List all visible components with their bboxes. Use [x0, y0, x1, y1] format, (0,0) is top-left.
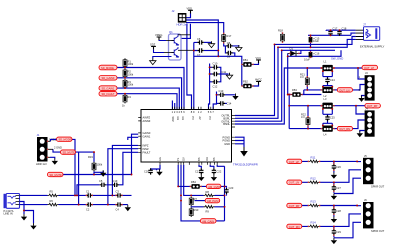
- svg-text:C3: C3: [116, 189, 120, 193]
- svg-text:C10: C10: [213, 62, 218, 66]
- wire U1 GAIN1 stub: [128, 137, 138, 140]
- resistor R8 zigzag: [204, 190, 215, 197]
- power flag GVDD at Q1B base: [150, 42, 164, 52]
- wire J6 pin3 return: [334, 222, 361, 238]
- net flag SDZ lower: [48, 172, 64, 177]
- svg-text:HDR 2x2: HDR 2x2: [177, 23, 189, 27]
- resistor R13 zigzag: [309, 200, 320, 207]
- resistor R4 pulldown: [122, 94, 131, 108]
- svg-text:SDZ: SDZ: [150, 42, 156, 46]
- ground below C28: [331, 217, 337, 223]
- svg-text:BS: BS: [197, 157, 201, 161]
- connector J4 4-pin: [365, 106, 375, 136]
- svg-text:GN: GN: [176, 116, 180, 120]
- net flag GVDD out: [206, 184, 221, 189]
- wire L3 out to label B-top and J4 pin1: [334, 106, 365, 114]
- svg-text:R18: R18: [278, 29, 283, 33]
- svg-text:C5: C5: [99, 179, 103, 183]
- wire row zigzag2: [191, 205, 224, 208]
- wire row zigzag1: [184, 165, 225, 196]
- junction dots mid caps: [193, 50, 219, 96]
- wire J1 pin2 net through flag down to line row2: [53, 149, 94, 204]
- svg-text:3.3: 3.3: [301, 115, 305, 119]
- svg-text:C26: C26: [336, 165, 341, 169]
- J3 pin name marks: [359, 75, 361, 92]
- ground below C29: [331, 238, 337, 244]
- ferrite bead FB4: [190, 180, 201, 189]
- wire x181 long drop to row3: [181, 165, 200, 221]
- capacitor C5a top chain: [99, 179, 106, 187]
- junction dots supply: [274, 29, 341, 106]
- svg-text:FB1: FB1: [243, 58, 248, 62]
- svg-text:R4: R4: [128, 95, 132, 99]
- svg-text:R11: R11: [311, 156, 316, 160]
- svg-text:C14: C14: [227, 101, 232, 105]
- svg-text:C8: C8: [227, 41, 231, 45]
- svg-text:OUT_RN: OUT_RN: [289, 225, 300, 229]
- wire J1 pin1 net through flag down to line row1: [51, 139, 76, 195]
- ferrite bead FB3: [291, 88, 302, 97]
- J1 pin name labels: [49, 137, 62, 149]
- svg-text:OUT_LN: OUT_LN: [339, 88, 349, 92]
- svg-text:C2: C2: [86, 208, 90, 212]
- ground J4: [357, 131, 363, 137]
- capacitor C21 bootstrap: [195, 168, 204, 174]
- svg-text:SD_GAIN0: SD_GAIN0: [102, 76, 115, 80]
- wire C7 right to mid rail: [204, 50, 218, 52]
- power flag VDD above J2: [187, 6, 193, 13]
- svg-text:AM_GVDD: AM_GVDD: [208, 185, 221, 189]
- svg-text:R9: R9: [206, 210, 210, 214]
- resistor R5: [48, 190, 59, 197]
- wire C10-C12 right rail to ground: [219, 67, 229, 82]
- capacitor C15 bulk: [309, 37, 320, 44]
- svg-text:FB4: FB4: [191, 180, 196, 184]
- junction dots left flag rows: [124, 67, 126, 95]
- svg-text:BS: BS: [212, 157, 216, 161]
- svg-text:J2: J2: [172, 9, 175, 13]
- junction dots line-in: [23, 194, 113, 211]
- capacitor C12: [212, 80, 218, 89]
- wire supply rail2 with step: [308, 33, 356, 35]
- wire R22 zobel ties: [307, 106, 309, 129]
- resistor R6: [48, 199, 59, 206]
- audio jack J8 LINE IN: [4, 194, 20, 216]
- capacitor C16 bulk: [304, 52, 320, 62]
- svg-text:R14: R14: [311, 221, 317, 225]
- ground right of C8: [236, 45, 242, 51]
- svg-text:FB3: FB3: [292, 88, 297, 92]
- wire L1 out to SPK label and J3 pin1: [334, 68, 365, 79]
- capacitor C2: [86, 202, 93, 211]
- svg-text:PV: PV: [191, 116, 195, 120]
- wire filter A ladder: [323, 71, 332, 87]
- wire left flag row4 to U1 pin1: [117, 94, 177, 110]
- U1 bottom inner pin names: [158, 157, 216, 161]
- svg-text:Q1: Q1: [169, 30, 173, 34]
- svg-text:10uF: 10uF: [313, 39, 319, 43]
- svg-text:C18: C18: [342, 26, 347, 30]
- diode D1: [288, 46, 301, 56]
- ground below C26: [331, 172, 337, 178]
- capacitor C8: [226, 41, 232, 48]
- wire C6 right to ground: [204, 41, 212, 43]
- J7 pin leads: [356, 30, 364, 39]
- svg-text:VDD: VDD: [187, 6, 193, 10]
- resistor R17: [222, 33, 232, 43]
- net flag SPK OUTB-: [337, 126, 352, 131]
- svg-text:GAIN1: GAIN1: [143, 134, 151, 138]
- U1 top pin numbers: [172, 110, 215, 114]
- svg-text:C27: C27: [336, 186, 341, 190]
- wire bead B out to flag: [201, 185, 225, 187]
- svg-text:C21: C21: [195, 170, 200, 174]
- capacitor C23 small: [224, 186, 234, 196]
- ground right of C10-C12: [226, 73, 232, 79]
- svg-text:R19: R19: [88, 155, 93, 159]
- svg-text:BSNL: BSNL: [223, 122, 230, 126]
- svg-text:100k: 100k: [128, 83, 134, 87]
- U1 right inner pin names: [221, 114, 230, 146]
- wire supply rail5: [282, 49, 335, 51]
- wire C15 bulk cap ties: [310, 35, 312, 47]
- pin end marks various components: [47, 32, 335, 236]
- resistor R1 pullup: [123, 58, 134, 68]
- ground right of C13: [232, 94, 238, 100]
- wire row1 cap tie: [333, 161, 335, 172]
- wire bot-right row1: [302, 160, 361, 162]
- capacitor C1: [86, 189, 93, 197]
- svg-text:C25: C25: [330, 116, 335, 120]
- connector J3 4-pin: [365, 71, 375, 100]
- wire row3 label to right bus: [216, 220, 225, 222]
- wire BS caps below U1: [199, 165, 214, 168]
- net flag J1 SDZ: [51, 137, 73, 142]
- svg-text:OUT_RN: OUT_RN: [339, 127, 350, 131]
- svg-text:SD_MUTE: SD_MUTE: [63, 151, 76, 155]
- capacitor C28: [332, 208, 342, 214]
- wire flag SDZ row: [63, 174, 132, 176]
- capacitor C22 bootstrap: [212, 168, 222, 174]
- svg-text:GND: GND: [224, 142, 230, 146]
- svg-text:C29: C29: [336, 230, 341, 234]
- wire left flag row2 to U1 pin3: [117, 78, 182, 110]
- capacitor C9: [226, 51, 232, 59]
- wire stubs C10-C12 left: [210, 67, 213, 82]
- wire U1 PGND pins to ground: [235, 137, 244, 147]
- wire U1 BSNL up to filter A feed: [235, 68, 321, 124]
- wire U1 INPZ riser from line row1: [112, 145, 138, 195]
- net flag SPK OUTB+: [365, 104, 381, 109]
- Q1B collector lead to net: [178, 49, 194, 51]
- svg-text:AINPZ: AINPZ: [143, 116, 151, 120]
- inductor L4: [321, 126, 334, 137]
- svg-text:AG: AG: [158, 157, 162, 161]
- ground jack sleeve: [21, 214, 27, 220]
- svg-text:VREG: VREG: [155, 33, 162, 37]
- svg-text:C4: C4: [116, 208, 120, 212]
- svg-text:C19: C19: [113, 179, 118, 183]
- inductor L1: [321, 60, 334, 72]
- svg-text:D1: D1: [290, 46, 294, 50]
- svg-text:C11: C11: [222, 70, 227, 74]
- wire AVCC rail down to U1: [209, 64, 210, 110]
- ground right of C6: [208, 41, 214, 47]
- net flag OUT_LN lower: [287, 180, 302, 185]
- resistor R22 zobel: [301, 113, 310, 126]
- wire C16 bulk cap ties: [310, 50, 312, 57]
- svg-text:100k: 100k: [128, 62, 134, 66]
- capacitor C27: [332, 185, 342, 191]
- svg-text:C12: C12: [213, 84, 218, 88]
- svg-text:PL: PL: [176, 157, 180, 161]
- svg-text:C13: C13: [219, 89, 224, 93]
- ground J3: [358, 96, 364, 102]
- transistor Q1A: [172, 34, 179, 46]
- op-amp U1 class-D amplifier IC body: [141, 110, 232, 163]
- power flag VREG at Q1A base: [155, 33, 166, 41]
- wire line-in row1: [20, 194, 132, 196]
- wire jack sleeve grounds: [20, 202, 34, 224]
- wire AC coupling top chain riser to U1: [77, 152, 138, 195]
- capacitor C5b top chain: [113, 179, 119, 187]
- wire R17 bottom to C8 C9: [224, 43, 227, 53]
- wire bot-right row3: [302, 205, 361, 207]
- svg-text:C22: C22: [217, 170, 222, 174]
- wire row4 cap tie: [333, 226, 335, 237]
- wire cap C6 C7 left rail to U1 pin9: [194, 42, 198, 109]
- ferrite bead FB2: [242, 80, 253, 89]
- net flag SPK OUTA+: [362, 65, 378, 70]
- svg-text:+C16: +C16: [313, 52, 320, 56]
- capacitor C3: [116, 189, 123, 197]
- svg-text:J1: J1: [37, 133, 40, 137]
- svg-text:R13: R13: [311, 200, 317, 204]
- resistor R10: [189, 207, 199, 217]
- wire rail B1 drop to rail B2: [288, 106, 290, 129]
- ground line-in right: [125, 205, 131, 211]
- svg-text:VCC: VCC: [256, 56, 262, 60]
- svg-text:SDZ: SDZ: [171, 116, 175, 122]
- capacitor C4: [116, 202, 123, 211]
- wire bot-right row2: [302, 170, 361, 183]
- wire L2 out to label A-mid: [334, 89, 338, 91]
- wire J2 pin3 to R17 top: [186, 23, 224, 34]
- svg-text:AM_GAIN: AM_GAIN: [202, 219, 214, 223]
- svg-text:TPA3110LD2PWPR: TPA3110LD2PWPR: [233, 163, 258, 167]
- junction dots below U1: [177, 185, 225, 207]
- wire extra top pins 1 2: [172, 101, 174, 110]
- wire Q1B emitter to open ground: [153, 57, 172, 59]
- capacitor CB filter: [325, 115, 335, 121]
- ground right of C20: [156, 169, 162, 175]
- resistor R3 pullup: [123, 79, 134, 89]
- wire supply rail6: [288, 50, 341, 56]
- capacitor CA filter: [325, 77, 335, 83]
- svg-text:C20: C20: [144, 170, 149, 174]
- wire left flag row1 to U1 pin4: [117, 68, 184, 110]
- svg-text:OU: OU: [205, 157, 209, 161]
- wire C14 right: [225, 102, 227, 104]
- U1 bottom pin stubs: [160, 162, 217, 165]
- capacitor C29: [332, 229, 342, 235]
- wire supply rail4 with step: [278, 39, 356, 47]
- svg-text:OUT_LP: OUT_LP: [289, 160, 299, 164]
- capacitor C13: [219, 89, 226, 97]
- wire L4 out to label B-mid: [334, 128, 338, 130]
- U1 left inner pin names: [143, 116, 151, 155]
- ground U1 right pins: [240, 147, 248, 157]
- svg-text:J7: J7: [363, 23, 366, 27]
- svg-text:INNZ: INNZ: [143, 147, 149, 151]
- wire J3 pin4 to ground: [362, 96, 365, 97]
- net flag PLIMIT: [99, 91, 117, 96]
- junction dots bottom right: [333, 160, 358, 227]
- ground J1 pin3: [50, 157, 58, 164]
- svg-text:SPKR OUT: SPKR OUT: [371, 185, 385, 189]
- svg-text:GN: GN: [181, 116, 185, 120]
- U1 top inner pin names: [171, 116, 212, 122]
- resistor R19: [88, 155, 103, 171]
- svg-text:OUT_LN: OUT_LN: [289, 181, 299, 185]
- resistor R18 on bootstrap net: [278, 29, 285, 43]
- svg-text:R10: R10: [194, 208, 199, 212]
- svg-text:EXTERNAL SUPPLY: EXTERNAL SUPPLY: [360, 45, 385, 49]
- wire L2 feed left stub: [303, 90, 305, 95]
- net flag GAIN0: [99, 76, 117, 81]
- svg-text:SW_GND: SW_GND: [331, 56, 343, 60]
- svg-text:SD_FAULT: SD_FAULT: [102, 92, 115, 96]
- wire line-in row2: [20, 204, 128, 206]
- open ground below Q1: [150, 58, 156, 64]
- svg-text:C23: C23: [229, 186, 234, 190]
- wire FB2 right to VCC flag: [253, 84, 259, 86]
- svg-text:C7: C7: [197, 53, 201, 57]
- svg-text:OUT_LP: OUT_LP: [364, 66, 374, 70]
- inductor L2: [321, 87, 334, 98]
- wire R19 bottom to ground: [94, 171, 103, 175]
- wire FB1 right to VCC flag: [253, 62, 259, 64]
- ground below C27: [331, 193, 337, 199]
- svg-text:SPKR OUT: SPKR OUT: [371, 229, 385, 233]
- wire rail B2 to L4: [289, 128, 321, 130]
- wire U1 GAIN0 feed from SDZ row: [132, 134, 139, 174]
- svg-text:R12: R12: [311, 177, 317, 181]
- wire supply rail1: [326, 29, 356, 31]
- wire C8 right to ground: [233, 45, 239, 47]
- U1 right pin stubs: [232, 116, 236, 144]
- wire U1 bottom pin drops left: [178, 165, 190, 187]
- svg-text:C28: C28: [336, 209, 341, 213]
- net flag OUT_RN lower: [287, 224, 302, 229]
- ground jack shield: [30, 223, 36, 229]
- wire C13 C14 left rail to U1: [213, 92, 218, 110]
- capacitor C11: [212, 70, 226, 76]
- wire U1 BSPL up to rail4: [235, 47, 278, 118]
- wire long vertical to U1 pin8: [187, 24, 192, 110]
- svg-text:OUT_RP: OUT_RP: [367, 104, 378, 108]
- transistor array Q1 box: [169, 30, 182, 60]
- svg-text:AV: AV: [198, 116, 202, 120]
- barrel jack J7 external supply: [364, 27, 380, 41]
- wire PVCC drop to FB3: [288, 56, 291, 94]
- wire L2 feed junction drop to rail B1: [288, 95, 290, 106]
- svg-text:C17: C17: [333, 26, 338, 30]
- ground below C22: [211, 175, 217, 181]
- svg-text:3.3: 3.3: [300, 75, 304, 79]
- U1 top pin stubs: [172, 107, 213, 110]
- wire C9 right down to rail: [233, 53, 235, 56]
- svg-text:R6: R6: [50, 199, 54, 203]
- wire to Q1 collector net: [181, 24, 190, 39]
- wire label B-mid to J4 pin2: [352, 120, 364, 129]
- svg-text:100k: 100k: [97, 163, 103, 167]
- connector J1 3-pin header: [36, 133, 53, 166]
- wire J4 pin4 to ground: [360, 131, 365, 132]
- wire J2 pin1 to +VDD flag: [186, 13, 191, 17]
- wire C13 right to ground: [225, 94, 235, 96]
- svg-text:AINNZ: AINNZ: [143, 119, 151, 123]
- capacitor C6: [197, 37, 204, 45]
- Q1A base lead: [166, 40, 174, 42]
- svg-text:R7: R7: [194, 197, 198, 201]
- svg-text:C24: C24: [330, 78, 335, 82]
- capacitor C10: [212, 62, 218, 70]
- svg-text:PV: PV: [208, 116, 212, 120]
- wire R19 top tie: [93, 152, 95, 162]
- capacitor C7: [197, 48, 204, 57]
- wire right bus below U1: [217, 165, 224, 221]
- wire label A-mid to J3 pin2: [352, 85, 364, 90]
- ferrite bead FB1: [242, 58, 253, 67]
- svg-text:SD_GAIN1: SD_GAIN1: [102, 87, 115, 91]
- wire row2 cap tie: [333, 182, 335, 193]
- svg-text:FB2: FB2: [243, 80, 248, 84]
- svg-text:R17: R17: [227, 34, 232, 38]
- svg-text:HDR 1x3: HDR 1x3: [36, 162, 47, 166]
- inductor L3: [321, 97, 334, 109]
- capacitor C20 AGND: [144, 168, 153, 174]
- junction J2 rails: [217, 50, 219, 52]
- resistor R21 zobel: [300, 73, 309, 87]
- svg-text:C9: C9: [227, 55, 231, 59]
- resistor R14 zigzag: [309, 221, 320, 228]
- junction dots J1 area: [93, 151, 132, 175]
- net flag SPK OUTA-: [337, 88, 352, 93]
- svg-text:10uF: 10uF: [304, 58, 310, 62]
- ground below C21: [198, 175, 204, 181]
- wire bot-right row4: [302, 214, 361, 227]
- svg-text:2 GND: 2 GND: [54, 145, 62, 149]
- resistor R2 pullup: [123, 69, 134, 79]
- wire rail B1 to L3: [289, 105, 321, 107]
- wire supply rail3 with step: [275, 37, 356, 45]
- svg-text:100k: 100k: [128, 72, 134, 76]
- capacitor C17: [328, 26, 338, 36]
- svg-text:LINE IN: LINE IN: [4, 211, 13, 215]
- svg-text:SD_MUTE: SD_MUTE: [50, 173, 63, 177]
- wire row2 label line: [195, 200, 206, 202]
- svg-text:GV: GV: [182, 157, 186, 161]
- ground below R19: [100, 170, 106, 176]
- U1 left pin stubs: [138, 118, 141, 153]
- svg-text:C1: C1: [86, 189, 90, 193]
- wire U1 OUTNL up to rail5: [235, 50, 282, 121]
- wire FB3 out to L2 feed: [302, 94, 321, 96]
- connector J6 line out: [363, 198, 374, 228]
- svg-text:FAULT: FAULT: [143, 150, 151, 154]
- net flag GAIN SLAVE: [200, 219, 216, 224]
